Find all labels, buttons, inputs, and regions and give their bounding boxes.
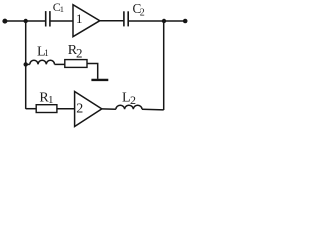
inductor L2 [116, 105, 142, 109]
node junction mid-left [24, 62, 28, 66]
inductor L1 [30, 60, 55, 64]
label C2 [133, 1, 145, 18]
node junction top-right [162, 19, 166, 23]
label L2 [122, 90, 136, 107]
svg-text:2: 2 [76, 46, 83, 61]
wire left rail [25, 21, 27, 109]
wire mid row: junction to L1 [26, 63, 30, 65]
wire top-left input lead [5, 20, 45, 22]
svg-text:2: 2 [76, 102, 83, 117]
svg-text:2: 2 [140, 8, 145, 19]
wire C2 to output terminal [129, 20, 186, 22]
op-amp U1 triangle [73, 5, 100, 37]
input terminal dot [2, 19, 7, 24]
label L1 [37, 44, 49, 59]
resistor R1 [36, 105, 57, 113]
output terminal dot [183, 19, 188, 24]
wire L1 to R2 [55, 63, 65, 65]
label R2 [68, 43, 83, 61]
wire op-amp 1 output to C2 [100, 20, 124, 22]
node junction top-left [24, 19, 28, 23]
svg-text:2: 2 [130, 93, 136, 107]
svg-text:1: 1 [44, 48, 49, 58]
capacitor C2 [124, 11, 128, 26]
svg-text:1: 1 [76, 11, 83, 26]
wire L2 to right rail [142, 108, 164, 111]
ground [91, 79, 108, 81]
wire C1 to op-amp 1 [50, 20, 73, 22]
wire bottom row: left rail to R1 [26, 108, 37, 110]
label C1 [53, 0, 64, 14]
resistor R2 [65, 60, 87, 68]
wire right rail [163, 21, 165, 110]
op-amp U2 triangle [75, 92, 102, 127]
svg-text:1: 1 [48, 94, 54, 106]
wire op-amp 2 to L2 [102, 108, 116, 110]
svg-text:1: 1 [60, 4, 64, 14]
wire R2 to ground stub [87, 64, 98, 79]
wire R1 to op-amp 2 [57, 108, 75, 110]
capacitor C1 [46, 11, 50, 26]
label R1 [39, 90, 53, 106]
